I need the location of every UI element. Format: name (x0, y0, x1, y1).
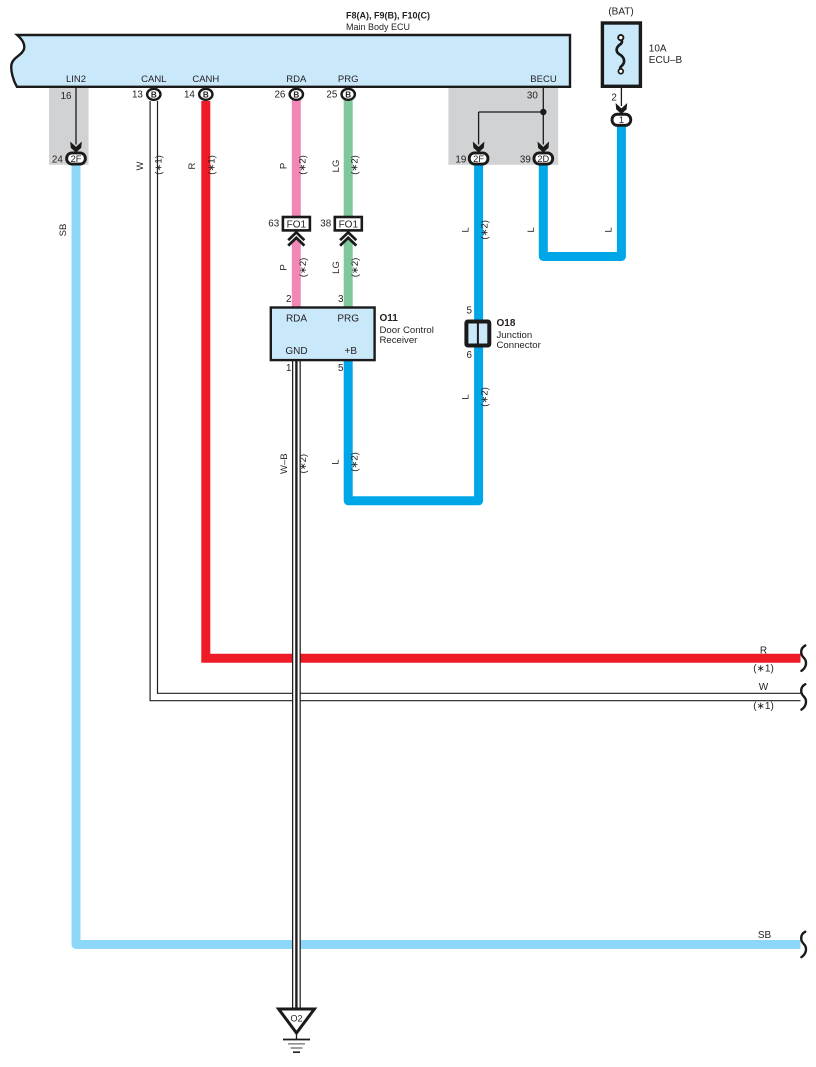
svg-text:CANH: CANH (192, 74, 219, 85)
svg-text:(∗1): (∗1) (153, 155, 164, 175)
shaded connector block under BECU (448, 87, 558, 165)
svg-text:14: 14 (184, 89, 195, 100)
svg-text:SB: SB (758, 930, 772, 941)
svg-text:30: 30 (527, 91, 538, 102)
junction dot (540, 109, 546, 115)
O18 label (497, 318, 542, 351)
ECU pin names (66, 74, 557, 85)
svg-text:2F: 2F (473, 154, 484, 164)
svg-text:R: R (760, 646, 767, 657)
svg-text:BECU: BECU (530, 74, 557, 85)
ellipse 2D pin39 (534, 153, 553, 164)
wire P (pink) lower segment with chevron point (292, 237, 301, 309)
svg-text:B: B (151, 90, 157, 99)
ellipse 2F pin24 (67, 153, 86, 164)
svg-text:RDA: RDA (286, 314, 307, 325)
svg-text:Receiver: Receiver (380, 335, 419, 346)
arrow into 2F(24) (70, 142, 82, 153)
wire LG (green) lower segment with chevron point (344, 237, 353, 309)
svg-text:13: 13 (132, 89, 143, 100)
svg-text:24: 24 (52, 154, 63, 165)
arrow line fuse pin2 (620, 88, 622, 106)
svg-text:FO1: FO1 (339, 219, 359, 230)
svg-text:38: 38 (320, 219, 331, 230)
svg-text:25: 25 (326, 89, 337, 100)
svg-text:RDA: RDA (286, 74, 307, 85)
O11 label (380, 313, 434, 346)
svg-text:B: B (293, 90, 299, 99)
svg-text:LG: LG (331, 160, 342, 173)
svg-text:26: 26 (274, 89, 285, 100)
svg-text:B: B (345, 90, 351, 99)
break symbol on SB wire (801, 932, 806, 957)
horizontal wire labels at right edge (753, 646, 774, 942)
svg-text:LG: LG (331, 261, 342, 274)
svg-text:SB: SB (58, 224, 69, 237)
svg-text:CANL: CANL (141, 74, 166, 85)
svg-text:+B: +B (345, 346, 358, 357)
FO1 connector pin38 (335, 217, 362, 230)
svg-text:PRG: PRG (337, 314, 359, 325)
ellipse 1 battery (612, 114, 631, 125)
wire LG (green) PRG upper segment (344, 100, 353, 218)
svg-text:1: 1 (286, 363, 291, 374)
svg-text:GND: GND (285, 346, 307, 357)
svg-text:Main Body ECU: Main Body ECU (346, 22, 410, 32)
svg-text:(∗2): (∗2) (298, 258, 309, 278)
svg-text:ECU–B: ECU–B (649, 55, 683, 66)
svg-text:(∗2): (∗2) (350, 155, 361, 175)
splice chevrons below FO1 (pin 38) (340, 232, 356, 245)
wire L (blue) battery to 2D (543, 124, 621, 257)
svg-text:P: P (279, 163, 290, 169)
arrow line LIN2 pin16 (75, 87, 77, 145)
svg-text:6: 6 (467, 350, 473, 361)
svg-text:3: 3 (338, 294, 344, 305)
ground symbol O2 (279, 1009, 315, 1052)
wire P (pink) RDA upper segment (292, 100, 301, 218)
FO1 connector pin63 (283, 217, 310, 230)
connector circle B pin14 (199, 89, 212, 100)
fuse 10A ECU-B (602, 23, 640, 86)
svg-text:P: P (279, 264, 290, 270)
svg-text:B: B (203, 90, 209, 99)
svg-text:O2: O2 (290, 1013, 302, 1023)
svg-text:39: 39 (520, 154, 531, 165)
svg-text:FO1: FO1 (287, 219, 307, 230)
svg-text:(∗1): (∗1) (206, 155, 217, 175)
svg-text:1: 1 (619, 115, 624, 125)
svg-text:PRG: PRG (338, 74, 359, 85)
svg-text:(∗2): (∗2) (350, 452, 361, 472)
svg-text:(∗2): (∗2) (298, 155, 309, 175)
svg-text:10A: 10A (649, 44, 667, 55)
svg-text:F8(A), F9(B), F10(C): F8(A), F9(B), F10(C) (346, 10, 430, 20)
svg-text:O11: O11 (380, 313, 399, 324)
svg-text:5: 5 (467, 306, 473, 317)
arrow into circle 1 (616, 103, 628, 114)
arrow into 2F(19) (473, 142, 485, 153)
svg-text:2: 2 (286, 294, 291, 305)
O11 Door Control Receiver box (271, 308, 375, 361)
svg-text:Junction: Junction (497, 330, 533, 341)
svg-text:2F: 2F (71, 154, 82, 164)
svg-text:L: L (460, 394, 471, 399)
svg-text:R: R (187, 162, 198, 169)
arrow into 2D(39) (538, 142, 550, 153)
junction line from BECU pin 30 (479, 87, 544, 145)
svg-text:2D: 2D (537, 154, 549, 164)
connector circle B pin26 (290, 89, 303, 100)
pin numbers (52, 89, 617, 374)
svg-text:W–B: W–B (279, 453, 290, 474)
connector circle B pin25 (342, 89, 355, 100)
svg-text:19: 19 (455, 154, 466, 165)
svg-text:(∗2): (∗2) (479, 220, 490, 240)
svg-text:L: L (331, 459, 342, 464)
svg-text:LIN2: LIN2 (66, 74, 86, 85)
Main Body ECU connector box (11, 35, 570, 87)
svg-text:W: W (135, 161, 146, 170)
svg-text:16: 16 (61, 91, 72, 102)
svg-text:63: 63 (268, 219, 279, 230)
break symbol on R wire (801, 646, 806, 671)
wire W-B (white with black stripe) GND of O11 to ground (292, 359, 301, 1009)
svg-text:L: L (526, 227, 537, 232)
ellipse 2F pin19 (469, 153, 488, 164)
svg-text:(BAT): (BAT) (608, 7, 633, 18)
svg-text:O18: O18 (497, 318, 516, 329)
svg-text:(∗2): (∗2) (479, 387, 490, 407)
svg-text:(∗1): (∗1) (753, 701, 774, 712)
splice chevrons below FO1 (pin 63) (288, 232, 304, 245)
break symbol on W wire (801, 684, 806, 709)
O18 junction connector (466, 322, 489, 346)
svg-text:(∗2): (∗2) (350, 258, 361, 278)
wire R (red) CANH to right edge (206, 101, 801, 658)
svg-text:(∗1): (∗1) (753, 663, 774, 674)
rotated wire labels (58, 155, 614, 474)
svg-text:(∗2): (∗2) (298, 454, 309, 474)
wire SB (sky blue) LIN2 to right edge (76, 157, 801, 945)
svg-text:L: L (603, 227, 614, 232)
wire L (blue) 2F through O18 to +B of O11 (348, 155, 478, 501)
fuse element (617, 35, 624, 74)
svg-text:Connector: Connector (497, 340, 542, 351)
svg-text:5: 5 (338, 363, 344, 374)
svg-text:W: W (759, 682, 769, 693)
svg-text:2: 2 (611, 93, 616, 104)
connector circle B pin13 (147, 89, 160, 100)
ECU title (346, 10, 430, 32)
svg-text:L: L (460, 227, 471, 232)
wire W (white) CANL to right edge (154, 101, 802, 697)
shaded connector block under LIN2 (49, 87, 89, 165)
